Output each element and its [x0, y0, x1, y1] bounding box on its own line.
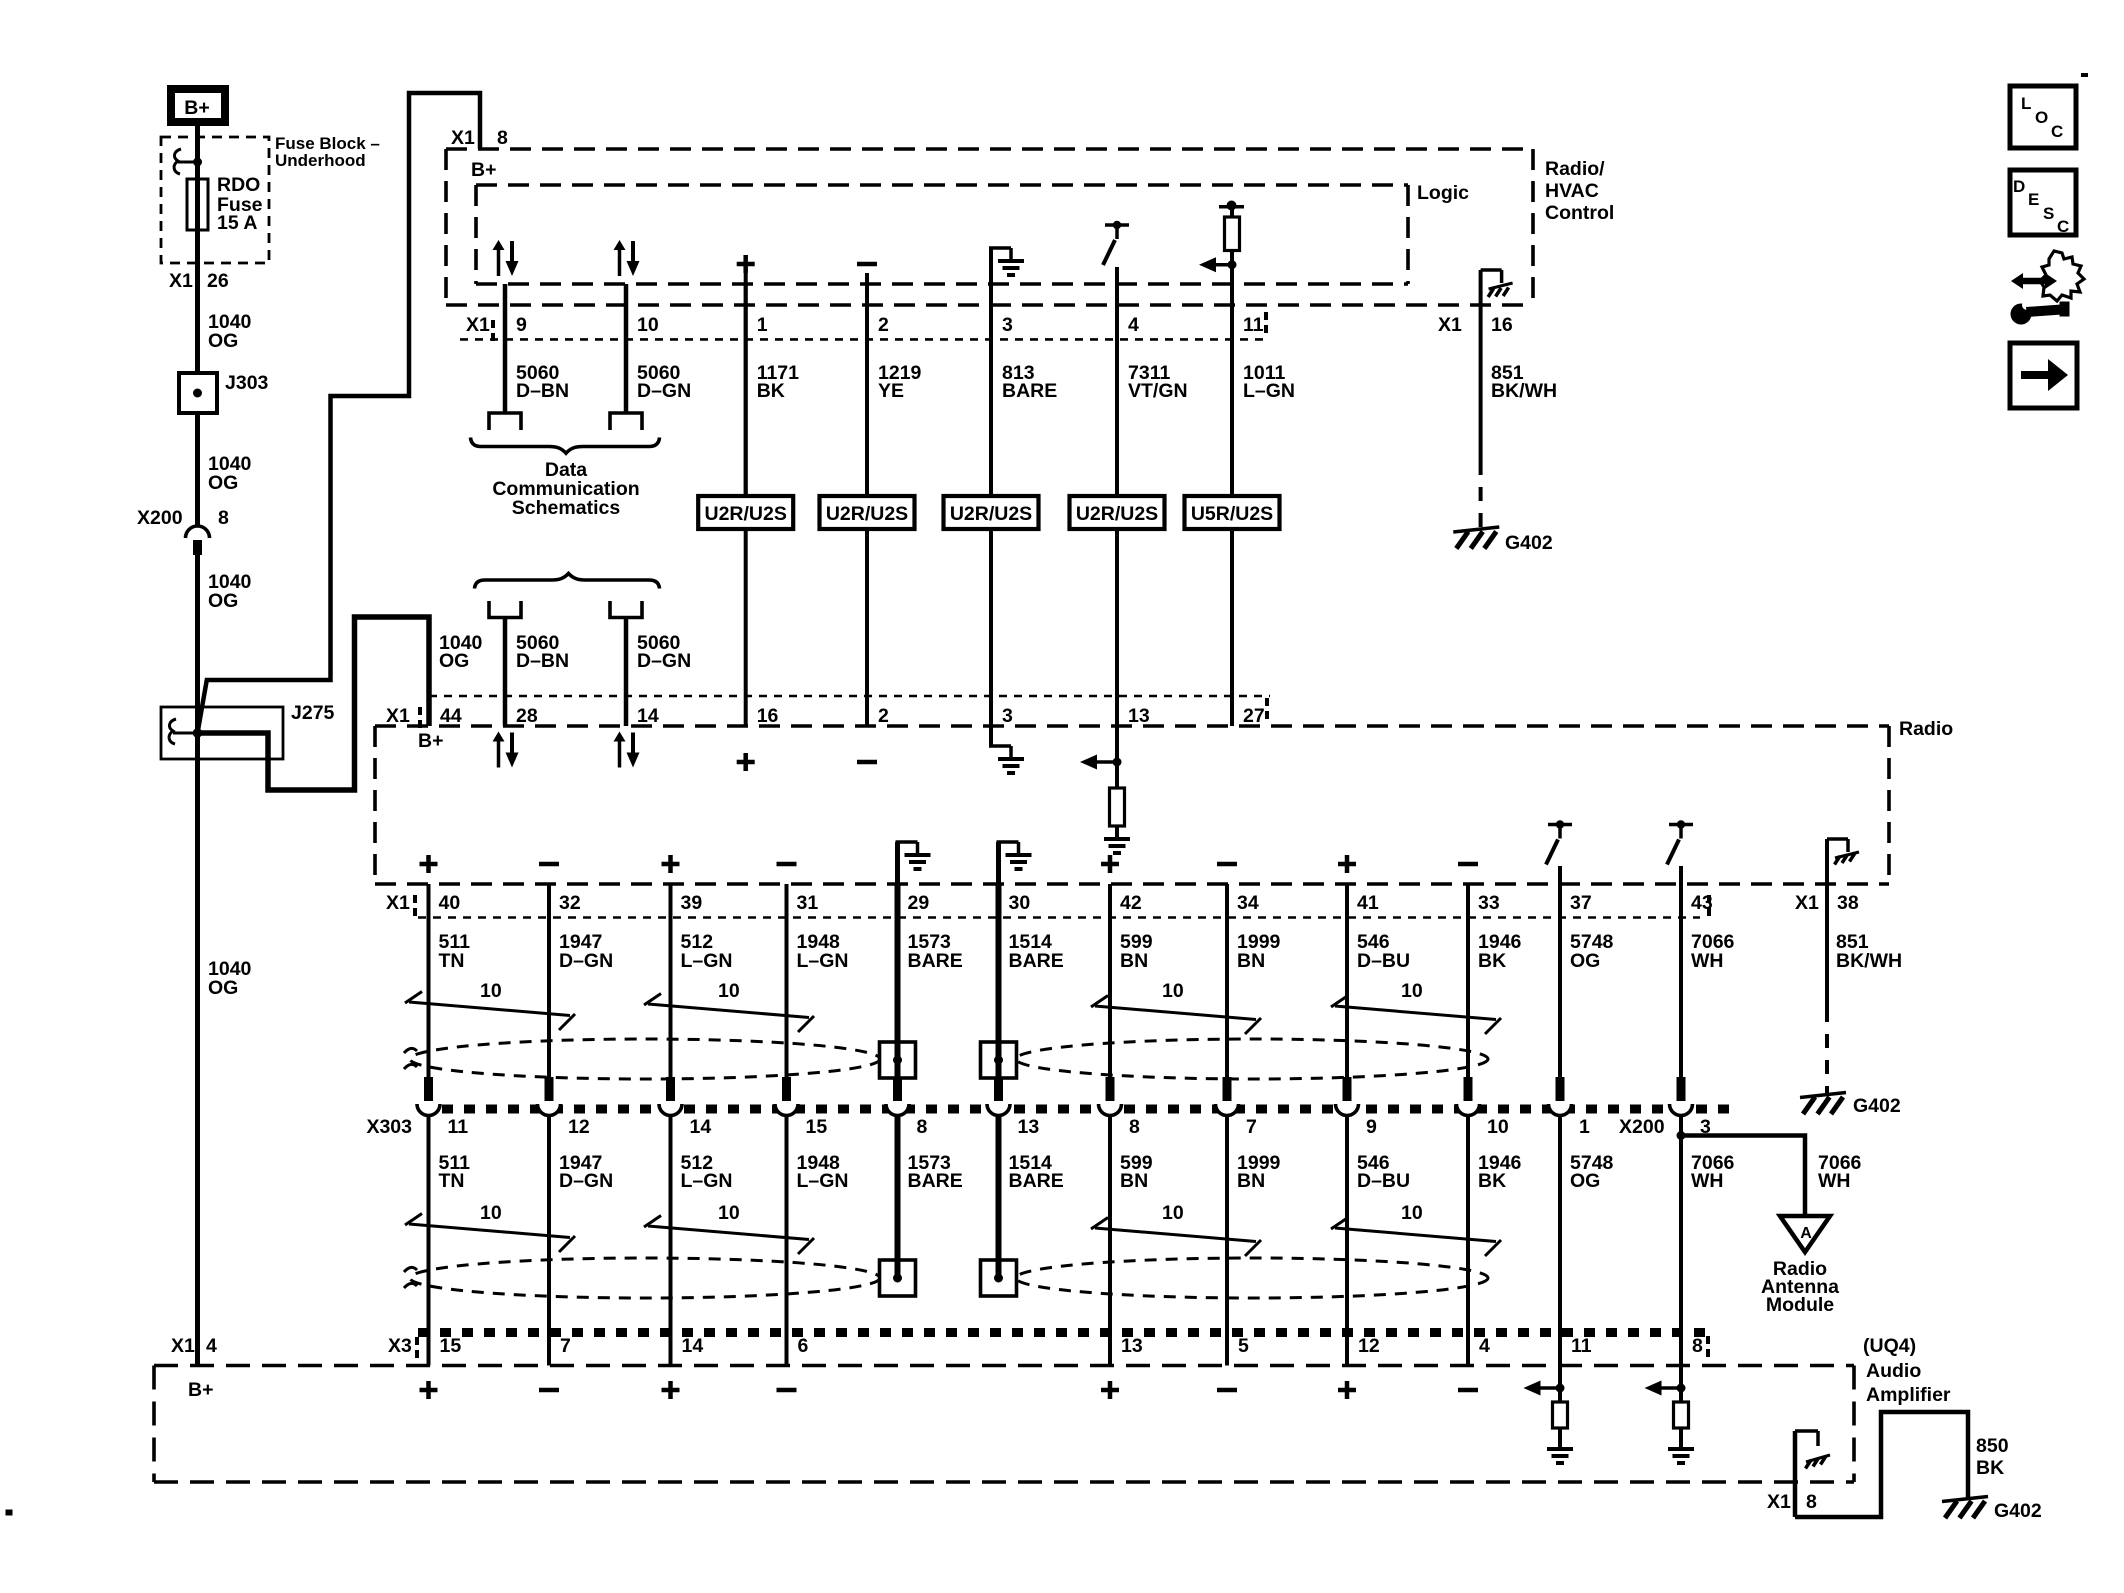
svg-text:Amplifier: Amplifier — [1866, 1384, 1951, 1406]
wire segment radio to X303 at 1347 — [1345, 884, 1349, 1077]
serial data arrows radio pin 14 — [618, 740, 622, 768]
loop end squiggle (upper) — [404, 1048, 417, 1053]
connector terminal at 1681 — [1677, 1077, 1686, 1101]
wire segment radio to X303 at 998.5 — [996, 884, 1002, 1077]
ground amp at 1560 — [1547, 1447, 1573, 1451]
plus symbol amp at 1110 — [1101, 1388, 1119, 1393]
connector terminal at 428.5 — [424, 1077, 433, 1101]
shield termination box wire 30 (lower) — [981, 1260, 1017, 1296]
svg-text:D–BU: D–BU — [1357, 950, 1410, 972]
splice pack J275 box — [161, 707, 283, 759]
twisted pair loop (lower right) — [1016, 1258, 1488, 1298]
svg-text:B+: B+ — [418, 730, 443, 752]
svg-text:L–GN: L–GN — [797, 950, 849, 972]
svg-text:BK: BK — [1976, 1457, 2004, 1479]
svg-text:10: 10 — [718, 980, 740, 1002]
svg-text:BARE: BARE — [1009, 950, 1064, 972]
wire segment X303 to amp at 1227 — [1225, 1116, 1229, 1366]
shield dot wire 29 (upper) — [893, 1056, 902, 1065]
svg-text:Radio: Radio — [1899, 718, 1953, 740]
svg-text:38: 38 — [1837, 892, 1859, 914]
connector terminal at 1468 — [1464, 1077, 1473, 1101]
serial data arrows pin 10 — [618, 248, 622, 276]
shield termination box wire 29 (upper) — [880, 1042, 916, 1078]
svg-text:BK: BK — [757, 380, 785, 402]
callout U2R/U2S at 991 — [944, 496, 1039, 529]
twisted pair loop (upper right) — [1016, 1039, 1488, 1079]
svg-text:BN: BN — [1120, 1170, 1148, 1192]
svg-text:BARE: BARE — [1002, 380, 1057, 402]
connector terminal at 549 — [545, 1077, 554, 1101]
svg-text:7: 7 — [1246, 1116, 1257, 1138]
page mark — [2081, 73, 2088, 77]
legend icon DESC — [2010, 170, 2076, 235]
twisted pair loop (upper left) — [410, 1039, 880, 1079]
arrow symbol radio pin 13 — [1115, 726, 1119, 788]
junction dot fuse input — [193, 158, 202, 167]
svg-text:C: C — [2051, 122, 2063, 141]
arrow symbol amp at 1560 — [1558, 1366, 1562, 1403]
svg-text:X1: X1 — [386, 892, 410, 914]
svg-text:9: 9 — [516, 314, 527, 336]
shield termination box wire 29 (lower) — [880, 1260, 916, 1296]
svg-text:2: 2 — [878, 705, 889, 727]
svg-text:OG: OG — [1570, 1170, 1600, 1192]
svg-text:11: 11 — [1243, 314, 1264, 336]
antenna branch wire 7066 WH — [1681, 1136, 1805, 1217]
svg-text:11: 11 — [448, 1116, 469, 1138]
wire X200-8 down to J275 — [195, 555, 200, 1366]
svg-text:B+: B+ — [184, 97, 209, 119]
wire X1-38 to G402 (mid) — [1825, 884, 1829, 1008]
svg-text:11: 11 — [1571, 1335, 1592, 1357]
plus symbol pin 1 — [737, 262, 755, 267]
connector X3 row bold dotted line — [418, 1328, 1712, 1337]
wires pins 9-11 logic box to connector X1 — [503, 284, 508, 412]
svg-text:3: 3 — [1002, 705, 1013, 727]
svg-text:31: 31 — [797, 892, 819, 914]
Audio Amplifier dashed box — [154, 1364, 1854, 1368]
svg-text:Schematics: Schematics — [512, 497, 621, 519]
svg-text:4: 4 — [1128, 314, 1139, 336]
svg-text:WH: WH — [1691, 1170, 1724, 1192]
wire segment X303 to amp at 998.5 — [996, 1116, 1002, 1278]
svg-text:12: 12 — [1358, 1335, 1380, 1357]
wire below callout 867 — [865, 529, 869, 726]
switch symbol radio pin 37 — [1548, 823, 1572, 827]
minus symbol amp at 1468 — [1458, 1388, 1478, 1393]
svg-text:J303: J303 — [225, 372, 269, 394]
wire segment radio to X303 at 549 — [547, 884, 551, 1077]
svg-text:L–GN: L–GN — [681, 1170, 733, 1192]
svg-text:14: 14 — [690, 1116, 712, 1138]
svg-text:X1: X1 — [1438, 314, 1462, 336]
svg-text:8: 8 — [218, 507, 229, 529]
junction dot J275 — [193, 728, 203, 738]
ground amp at 1681 — [1668, 1447, 1694, 1451]
wire segment X303 to amp at 1560 — [1558, 1116, 1562, 1366]
svg-text:26: 26 — [207, 270, 229, 292]
svg-text:7: 7 — [560, 1335, 571, 1357]
ground symbol radio pin 29 — [895, 842, 900, 884]
svg-text:10: 10 — [1401, 980, 1423, 1002]
brace to data communication schematics — [471, 438, 660, 454]
svg-text:1: 1 — [757, 314, 768, 336]
svg-text:44: 44 — [440, 705, 462, 727]
svg-text:10: 10 — [1162, 980, 1184, 1002]
svg-text:9: 9 — [1366, 1116, 1377, 1138]
svg-text:1: 1 — [1579, 1116, 1590, 1138]
wire segment X303 to amp at 897.5 — [895, 1116, 901, 1278]
resistor radio pin 13 — [1110, 788, 1125, 826]
wire segment X303 to amp at 1681 — [1679, 1116, 1683, 1366]
wire below callout 1232 — [1230, 529, 1234, 726]
svg-text:A: A — [1800, 1225, 1812, 1242]
svg-text:X1: X1 — [466, 314, 490, 336]
branch J275 up to HVAC X1-8 — [198, 93, 481, 733]
svg-text:37: 37 — [1570, 892, 1592, 914]
svg-text:27: 27 — [1243, 705, 1265, 727]
svg-text:U2R/U2S: U2R/U2S — [1076, 503, 1158, 525]
fuse RDO 15A — [187, 179, 208, 230]
brace from data communication schematics (lower) — [475, 574, 660, 589]
connector terminal at 1110 — [1106, 1077, 1115, 1101]
resistor amp at 1681 — [1674, 1402, 1689, 1428]
svg-text:33: 33 — [1478, 892, 1500, 914]
plus symbol amp at 1347 — [1338, 1388, 1356, 1393]
svg-text:4: 4 — [206, 1335, 217, 1357]
plus symbol radio pin 42 — [1101, 862, 1119, 867]
connector terminal at 1227 — [1223, 1077, 1232, 1101]
svg-text:3: 3 — [1002, 314, 1013, 336]
wire segment X303 to amp at 786.5 — [785, 1116, 789, 1366]
svg-text:BN: BN — [1120, 950, 1148, 972]
legend icon LOC — [2010, 86, 2076, 148]
svg-text:13: 13 — [1128, 705, 1150, 727]
svg-text:X1: X1 — [1795, 892, 1819, 914]
minus symbol radio pin 34 — [1217, 862, 1237, 867]
data-link stub pin 28 — [489, 601, 521, 618]
svg-text:L–GN: L–GN — [797, 1170, 849, 1192]
wire segment radio to X303 at 428.5 — [427, 884, 431, 1077]
svg-text:8: 8 — [1129, 1116, 1140, 1138]
svg-text:OG: OG — [208, 977, 238, 999]
svg-text:13: 13 — [1018, 1116, 1040, 1138]
radio antenna module symbol — [1780, 1216, 1830, 1252]
wire segment radio to X303 at 670.5 — [669, 884, 673, 1077]
svg-text:D–GN: D–GN — [637, 380, 691, 402]
svg-text:D–BN: D–BN — [516, 380, 569, 402]
svg-text:U5R/U2S: U5R/U2S — [1191, 503, 1273, 525]
svg-text:BK: BK — [1478, 950, 1506, 972]
connector X1 row (radio bottom) dotted line — [418, 916, 1700, 919]
svg-text:Module: Module — [1766, 1294, 1834, 1316]
svg-text:40: 40 — [439, 892, 461, 914]
svg-text:BK/WH: BK/WH — [1836, 950, 1902, 972]
wire pin 14 to radio — [624, 618, 629, 727]
svg-text:TN: TN — [439, 950, 465, 972]
svg-text:29: 29 — [908, 892, 930, 914]
svg-text:S: S — [2043, 204, 2054, 223]
ground symbol radio pin 30 — [996, 842, 1001, 884]
data-link stub pin 14 — [610, 601, 642, 618]
minus symbol amp at 549 — [539, 1388, 559, 1393]
plus symbol amp at 428.5 — [420, 1388, 438, 1393]
ground G402 (bottom) — [1942, 1497, 1988, 1502]
svg-text:BN: BN — [1237, 950, 1265, 972]
connector terminal at 786.5 — [782, 1077, 791, 1101]
svg-text:TN: TN — [439, 1170, 465, 1192]
fuse block - underhood dashed box — [161, 137, 269, 263]
wire segment X303 to amp at 670.5 — [669, 1116, 673, 1366]
svg-text:J275: J275 — [291, 702, 335, 724]
svg-text:34: 34 — [1237, 892, 1259, 914]
svg-text:10: 10 — [1162, 1202, 1184, 1224]
female terminal hook at J275 — [169, 719, 176, 744]
connector X1 row (radio top) dotted line — [429, 695, 1270, 698]
connector terminal at 998.5 — [994, 1077, 1003, 1101]
svg-text:L–GN: L–GN — [1243, 380, 1295, 402]
loop end squiggle (lower) — [404, 1267, 417, 1272]
svg-text:13: 13 — [1121, 1335, 1143, 1357]
shield dot wire 30 (lower) — [994, 1274, 1003, 1283]
wire below callout 991 — [989, 529, 993, 726]
wire below callout 1117 — [1115, 529, 1119, 726]
svg-text:39: 39 — [681, 892, 703, 914]
svg-text:Audio: Audio — [1866, 1360, 1921, 1382]
svg-text:12: 12 — [568, 1116, 590, 1138]
minus symbol radio pin 32 — [539, 862, 559, 867]
svg-text:16: 16 — [1491, 314, 1513, 336]
svg-text:G402: G402 — [1853, 1095, 1901, 1117]
svg-text:2: 2 — [878, 314, 889, 336]
Logic inner dashed box — [476, 183, 1408, 187]
wire 850 BK to G402 — [1795, 1412, 1968, 1517]
svg-text:15: 15 — [440, 1335, 462, 1357]
svg-text:X3: X3 — [388, 1335, 412, 1357]
svg-text:BN: BN — [1237, 1170, 1265, 1192]
svg-text:10: 10 — [718, 1202, 740, 1224]
svg-text:D–BN: D–BN — [516, 650, 569, 672]
minus symbol radio pin 33 — [1458, 862, 1478, 867]
svg-text:(UQ4): (UQ4) — [1863, 1335, 1916, 1357]
legend icon wiring/repair — [2021, 278, 2047, 285]
svg-text:OG: OG — [439, 650, 469, 672]
svg-text:U2R/U2S: U2R/U2S — [826, 503, 908, 525]
svg-text:OG: OG — [208, 472, 238, 494]
plus symbol radio pin 41 — [1338, 862, 1356, 867]
ground symbol pin 3 (in Logic box) — [989, 248, 993, 284]
resistor amp at 1560 — [1553, 1402, 1568, 1428]
svg-text:D: D — [2013, 177, 2025, 196]
connector X303/X200 bold dotted line — [420, 1105, 1730, 1114]
svg-text:42: 42 — [1120, 892, 1142, 914]
svg-text:8: 8 — [1692, 1335, 1703, 1357]
svg-text:WH: WH — [1818, 1170, 1851, 1192]
svg-text:8: 8 — [917, 1116, 928, 1138]
wire segment X303 to amp at 1347 — [1345, 1116, 1349, 1366]
svg-text:41: 41 — [1357, 892, 1379, 914]
shield termination box wire 30 (upper) — [981, 1042, 1017, 1078]
ground symbol radio pin 3 — [989, 726, 993, 746]
callout U5R/U2S at 1232 — [1185, 496, 1280, 529]
svg-text:C: C — [2057, 217, 2069, 236]
svg-text:BARE: BARE — [1009, 1170, 1064, 1192]
svg-text:RDO: RDO — [217, 174, 260, 196]
svg-text:X303: X303 — [366, 1116, 412, 1138]
svg-text:BARE: BARE — [908, 1170, 963, 1192]
svg-text:Radio/: Radio/ — [1545, 158, 1605, 180]
svg-text:X200: X200 — [137, 507, 183, 529]
svg-text:28: 28 — [516, 705, 538, 727]
shield dot wire 30 (upper) — [994, 1056, 1003, 1065]
wire segment radio to X303 at 1681 — [1679, 884, 1683, 1077]
svg-text:15 A: 15 A — [217, 212, 257, 234]
svg-text:10: 10 — [480, 1202, 502, 1224]
svg-text:YE: YE — [878, 380, 904, 402]
wire segment radio to X303 at 1227 — [1225, 884, 1229, 1077]
svg-text:Underhood: Underhood — [275, 151, 366, 170]
svg-text:X1: X1 — [1767, 1491, 1791, 1513]
svg-text:B+: B+ — [188, 1379, 213, 1401]
wire segment radio to X303 at 1468 — [1466, 884, 1470, 1077]
wire segment X303 to amp at 428.5 — [427, 1116, 431, 1366]
svg-text:WH: WH — [1691, 950, 1724, 972]
callout U2R/U2S at 867 — [820, 496, 915, 529]
svg-text:B+: B+ — [471, 159, 496, 181]
wire J303 to X200-8 — [195, 413, 200, 525]
svg-text:D–GN: D–GN — [559, 1170, 613, 1192]
svg-text:D–GN: D–GN — [559, 950, 613, 972]
svg-text:10: 10 — [1487, 1116, 1509, 1138]
svg-text:10: 10 — [637, 314, 659, 336]
chassis ground inside amplifier — [1793, 1431, 1798, 1517]
svg-text:O: O — [2035, 108, 2048, 127]
svg-text:VT/GN: VT/GN — [1128, 380, 1188, 402]
plus symbol radio pin 39 — [662, 862, 680, 867]
wire B+ to fuse — [195, 125, 200, 375]
wire X1-16 to G402 — [1479, 305, 1483, 461]
wire segment X303 to amp at 1468 — [1466, 1116, 1470, 1366]
switch symbol pin 4 — [1105, 223, 1129, 227]
connector X1 row (HVAC) dotted line — [460, 338, 1270, 341]
data-link stub pin 9 — [489, 413, 521, 430]
plus symbol amp at 670.5 — [662, 1388, 680, 1393]
wire segment radio to X303 at 786.5 — [785, 884, 789, 1077]
svg-text:E: E — [2028, 190, 2039, 209]
svg-text:X1: X1 — [169, 270, 193, 292]
connector terminal at 897.5 — [893, 1077, 902, 1101]
callout U2R/U2S at 1117 — [1070, 496, 1165, 529]
plus symbol radio pin 40 — [420, 862, 438, 867]
svg-text:15: 15 — [806, 1116, 828, 1138]
female terminal hook at fuse block input — [174, 149, 181, 174]
ground G402 (top) — [1453, 527, 1499, 532]
Radio/HVAC Control outer dashed box — [446, 147, 1533, 151]
svg-text:850: 850 — [1976, 1435, 2009, 1457]
wire segment radio to X303 at 1110 — [1108, 884, 1112, 1077]
svg-text:BK/WH: BK/WH — [1491, 380, 1557, 402]
minus symbol amp at 1227 — [1217, 1388, 1237, 1393]
wire segment radio to X303 at 897.5 — [895, 884, 901, 1077]
svg-text:G402: G402 — [1994, 1500, 2042, 1522]
Radio dashed box — [375, 724, 1889, 728]
svg-text:OG: OG — [208, 590, 238, 612]
svg-text:BK: BK — [1478, 1170, 1506, 1192]
arrow symbol amp at 1681 — [1679, 1366, 1683, 1403]
svg-text:8: 8 — [1806, 1491, 1817, 1513]
svg-text:OG: OG — [1570, 950, 1600, 972]
ground radio pin 13 — [1104, 837, 1130, 841]
svg-text:6: 6 — [798, 1335, 809, 1357]
callout U2R/U2S at 745.7 — [698, 496, 793, 529]
serial data arrows radio pin 28 — [497, 740, 501, 768]
svg-text:L–GN: L–GN — [681, 950, 733, 972]
svg-text:8: 8 — [497, 127, 508, 149]
svg-text:X1: X1 — [386, 705, 410, 727]
svg-text:HVAC: HVAC — [1545, 180, 1599, 202]
wire pin 28 to radio — [503, 618, 508, 727]
svg-text:14: 14 — [637, 705, 659, 727]
svg-text:U2R/U2S: U2R/U2S — [950, 503, 1032, 525]
chassis ground radio pin 38 — [1825, 839, 1829, 884]
connector terminal at 1560 — [1556, 1077, 1565, 1101]
minus symbol radio pin 2 — [857, 760, 877, 765]
svg-text:32: 32 — [559, 892, 581, 914]
svg-text:BARE: BARE — [908, 950, 963, 972]
svg-text:Control: Control — [1545, 202, 1614, 224]
svg-text:16: 16 — [757, 705, 779, 727]
data-link stub pin 10 — [610, 413, 642, 430]
stray mark bottom-left — [6, 1510, 12, 1515]
ground wire X1-16 inside HVAC box — [1479, 268, 1483, 272]
svg-text:X200: X200 — [1619, 1116, 1665, 1138]
connector terminal at 670.5 — [666, 1077, 675, 1101]
branch J275 to radio X1-44 (heavy) — [198, 617, 430, 790]
svg-text:5: 5 — [1238, 1335, 1249, 1357]
svg-text:D–BU: D–BU — [1357, 1170, 1410, 1192]
connector terminal at 1347 — [1343, 1077, 1352, 1101]
svg-text:30: 30 — [1009, 892, 1031, 914]
wire segment X303 to amp at 549 — [547, 1116, 551, 1366]
splice J303 — [179, 373, 217, 413]
svg-text:OG: OG — [208, 330, 238, 352]
svg-text:G402: G402 — [1505, 532, 1553, 554]
battery B+ terminal box — [171, 89, 225, 122]
wire segment radio to X303 at 1560 — [1558, 884, 1562, 1077]
svg-text:L: L — [2021, 94, 2031, 113]
twisted pair loop (lower left) — [410, 1258, 880, 1298]
minus symbol radio pin 31 — [777, 862, 797, 867]
svg-text:D–GN: D–GN — [637, 650, 691, 672]
svg-text:X1: X1 — [171, 1335, 195, 1357]
minus symbol amp at 786.5 — [777, 1388, 797, 1393]
svg-text:10: 10 — [1401, 1202, 1423, 1224]
svg-text:U2R/U2S: U2R/U2S — [705, 503, 787, 525]
plus symbol radio pin 16 — [737, 760, 755, 765]
switch symbol radio pin 43 — [1669, 823, 1693, 827]
arrow symbol pin 11 — [1199, 257, 1216, 272]
serial data arrows pin 9 — [497, 248, 501, 276]
resistor on pin 11 (in Logic box) — [1219, 205, 1244, 209]
svg-text:X1: X1 — [451, 127, 475, 149]
wire segment X303 to amp at 1110 — [1108, 1116, 1112, 1366]
svg-text:4: 4 — [1479, 1335, 1490, 1357]
minus symbol pin 2 — [857, 262, 877, 267]
ground G402 (mid) — [1800, 1093, 1846, 1098]
svg-text:Logic: Logic — [1417, 182, 1469, 204]
svg-text:14: 14 — [682, 1335, 704, 1357]
